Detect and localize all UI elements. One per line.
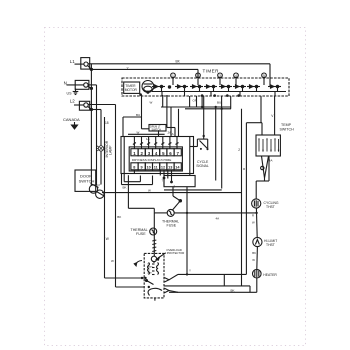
display pins row 1 [131, 149, 181, 156]
timer cam contact 7 [247, 85, 260, 92]
svg-text:W: W [150, 101, 153, 105]
svg-text:R: R [243, 167, 246, 171]
display outer box [121, 137, 194, 174]
svg-text:L2: L2 [70, 98, 75, 103]
svg-text:5: 5 [263, 74, 265, 78]
svg-text:6: 6 [169, 151, 172, 156]
motor junction dots [141, 277, 150, 288]
wire L2 lead [74, 104, 84, 106]
svg-text:1: 1 [172, 74, 174, 78]
motor bottom stub [154, 298, 156, 301]
wire right drop to bend [246, 96, 262, 135]
label CYCLE SIGNAL [196, 160, 209, 168]
overload pointer arrow [156, 253, 166, 260]
wire branch vertical [223, 274, 225, 286]
timer terminal 3 [218, 73, 223, 85]
ground strap arrow [134, 261, 142, 266]
display bottom pins [160, 170, 171, 187]
wire timer drop h [167, 95, 175, 137]
timer cam contact 4 [204, 85, 217, 92]
svg-text:3: 3 [219, 74, 221, 78]
svg-text:THERMAL: THERMAL [162, 219, 179, 223]
wire display left to fuse [128, 175, 154, 213]
svg-text:2: 2 [141, 151, 144, 156]
svg-text:US: US [67, 92, 73, 96]
wire op to winding [153, 262, 155, 263]
timer terminal 4 [234, 73, 239, 85]
svg-text:PROTECTOR: PROTECTOR [167, 251, 185, 255]
motor bottom hook [148, 288, 162, 295]
label THERMAL FUSE 1 [162, 219, 179, 227]
svg-text:HEATER: HEATER [263, 273, 277, 277]
wire N lead [67, 84, 84, 86]
wire drop b [196, 96, 198, 107]
label OVERLOAD PROTECTOR [166, 248, 184, 255]
svg-text:Y: Y [189, 269, 191, 273]
svg-text:SWITCH: SWITCH [280, 127, 295, 131]
wire long right vertical [245, 123, 247, 275]
wire timer to temp switch feed V [274, 96, 276, 135]
svg-text:4: 4 [155, 151, 158, 156]
junction dot timer bottom [139, 93, 142, 96]
motor winding right [157, 263, 159, 275]
svg-text:4: 4 [235, 74, 237, 78]
timer cam contact 3 [190, 85, 203, 92]
svg-text:2: 2 [197, 74, 199, 78]
terminal block L1 [81, 58, 90, 70]
junction dot [255, 212, 257, 214]
cycling thermostat [252, 199, 261, 208]
wire drop e [221, 96, 223, 109]
display top pins [134, 137, 177, 149]
svg-text:BU: BU [217, 101, 221, 105]
svg-text:W: W [252, 221, 255, 225]
junction dots timer box bottom [201, 94, 240, 97]
wire thermal fuse 1 left [154, 212, 167, 214]
temp switch box [256, 135, 280, 156]
wire drop c [201, 96, 203, 107]
wire display pin to fuse blade [173, 187, 182, 210]
wire L1 second feed [91, 69, 198, 78]
thermal fuse 1 [167, 209, 174, 216]
wire drop d [203, 96, 205, 139]
wire motor to right vertical [178, 273, 246, 275]
wire chime to right [164, 189, 222, 191]
switch blade N [88, 86, 93, 89]
svg-text:THST: THST [266, 205, 275, 209]
lamp interior [97, 146, 104, 151]
timer terminal 2 [196, 73, 201, 85]
terminal block N [75, 80, 89, 89]
svg-text:8: 8 [133, 166, 135, 170]
svg-text:10: 10 [147, 166, 151, 170]
svg-text:3A: 3A [170, 132, 174, 136]
wire door switch to right [102, 192, 242, 194]
junction dot timer main [168, 85, 171, 88]
temp switch contacts [259, 139, 279, 152]
svg-text:7: 7 [177, 151, 180, 156]
wire display right inner edge [189, 137, 191, 176]
motor right connector 1 [165, 274, 179, 282]
svg-text:4A: 4A [216, 217, 220, 221]
wire L1 lead [75, 63, 85, 65]
heater [252, 269, 261, 278]
timer box [122, 78, 289, 96]
temp switch label [280, 123, 295, 131]
wire mid drop a [215, 107, 217, 181]
wire display feed a [170, 107, 172, 137]
wire temp switch to cycling [256, 156, 269, 199]
svg-text:V: V [271, 114, 274, 118]
wire terminal column vertical [90, 64, 92, 185]
drum light switch box [149, 125, 166, 132]
svg-text:BK: BK [117, 215, 121, 219]
svg-text:BK: BK [252, 251, 256, 255]
svg-text:BK: BK [231, 288, 235, 292]
motor internal ticks [152, 264, 155, 275]
junction dots bus [201, 106, 223, 110]
svg-text:2: 2 [238, 148, 240, 152]
svg-text:THERMAL: THERMAL [131, 228, 148, 232]
label HI-LIMIT THST [264, 239, 277, 247]
timer cam contact 8 [268, 85, 281, 92]
wire fuse junction down [186, 187, 188, 275]
fuse column ticks [152, 240, 156, 252]
svg-text:Y: Y [127, 67, 130, 71]
timer motor symbol [142, 81, 154, 94]
wire N down [89, 85, 97, 185]
junction dot [186, 212, 188, 214]
svg-text:TIMER: TIMER [125, 84, 136, 88]
wire cycling to hi-limit [255, 208, 258, 237]
svg-text:R: R [252, 214, 254, 218]
wire drum switch down [158, 131, 160, 137]
timer cam contact 6 [233, 85, 246, 92]
wire door switch down [105, 117, 145, 278]
motor winding labels [148, 264, 154, 275]
overload protector symbol [151, 256, 156, 261]
motor contact blade [146, 280, 154, 285]
junction dots below display [163, 177, 173, 184]
display pin numbers row 1 [133, 151, 179, 156]
timer cam contact 1 [152, 85, 165, 92]
display bottom loop U2 [122, 174, 153, 185]
timer terminal 1 [171, 73, 176, 85]
timer internal bus line [152, 91, 286, 93]
wire fuse column down [153, 213, 155, 256]
svg-text:1: 1 [133, 151, 136, 156]
svg-text:CANADA: CANADA [63, 117, 80, 122]
display top pin ticks [133, 143, 179, 145]
svg-text:L1: L1 [70, 59, 75, 64]
junction dot [186, 273, 188, 275]
svg-text:DRYNESS DISPLAY/CHIME: DRYNESS DISPLAY/CHIME [132, 158, 171, 162]
cycle signal switch [190, 139, 209, 150]
bus below timer [161, 107, 231, 109]
door switch box [75, 170, 96, 191]
svg-text:W: W [106, 237, 109, 241]
label THERMAL FUSE 2 [131, 228, 148, 236]
svg-text:N: N [64, 80, 67, 85]
thermal fuse 2 [150, 228, 157, 235]
wire lamp switch feed [123, 95, 149, 137]
terminal block L2 [79, 101, 89, 110]
svg-text:LAMP: LAMP [109, 145, 113, 155]
wire lamp down [100, 151, 102, 185]
wire display top link [128, 133, 165, 135]
svg-text:3: 3 [148, 151, 151, 156]
connector bullet [261, 166, 264, 169]
motor box [144, 253, 164, 298]
display pin numbers row 2 [133, 166, 180, 170]
wire mid drop b [221, 109, 223, 189]
wire timer drop g [162, 95, 164, 108]
wire heater down [169, 278, 257, 292]
svg-text:1A: 1A [146, 137, 150, 141]
wire L1 to right bus [88, 64, 270, 87]
svg-text:11: 11 [154, 166, 158, 170]
svg-text:BK: BK [123, 185, 127, 189]
svg-text:18: 18 [105, 121, 109, 125]
switch blade L2 [88, 106, 93, 110]
svg-text:SWITCH: SWITCH [79, 179, 95, 184]
wire thermal fuse 1 right [174, 212, 256, 214]
wire L2 lamp branch [91, 110, 101, 146]
svg-text:LO: LO [148, 270, 151, 272]
svg-text:SWITCH: SWITCH [152, 128, 162, 131]
wire hi-limit to heater [256, 247, 259, 270]
svg-text:5: 5 [162, 151, 165, 156]
ground CANADA [63, 117, 80, 129]
svg-text:BK: BK [176, 59, 181, 63]
motor winding left [148, 263, 150, 275]
svg-text:14: 14 [175, 166, 180, 170]
display bottom loop U1 [124, 137, 140, 182]
svg-text:W: W [111, 259, 114, 263]
svg-text:12: 12 [161, 166, 165, 170]
svg-text:FUSE: FUSE [136, 232, 146, 236]
label INTERIOR LAMP [105, 140, 113, 157]
timer cam contact 5 [219, 85, 232, 92]
timer terminal 5 [262, 73, 267, 85]
svg-text:THST: THST [266, 243, 275, 247]
wire motor mid right [164, 286, 250, 292]
motor right connector 2 [165, 288, 179, 292]
svg-text:FUSE: FUSE [167, 224, 177, 228]
svg-text:13: 13 [168, 166, 172, 170]
svg-text:W: W [148, 189, 151, 193]
svg-text:AUX: AUX [148, 272, 153, 275]
wire drop a [189, 96, 191, 107]
svg-text:GY: GY [97, 183, 101, 187]
wire L2 to inner column [88, 105, 144, 288]
timer bus stubs [162, 92, 275, 97]
svg-text:MOTOR: MOTOR [125, 88, 138, 92]
temp switch output V wires [262, 156, 269, 181]
svg-text:W: W [137, 131, 140, 135]
timer motor box [124, 82, 140, 93]
svg-text:9: 9 [141, 166, 143, 170]
timer cam contact 2 [175, 85, 188, 92]
svg-text:TIMER: TIMER [203, 68, 220, 73]
chime loop box [164, 176, 195, 187]
svg-text:SIGNAL: SIGNAL [196, 164, 209, 168]
wire drop f [230, 96, 232, 109]
svg-text:BU: BU [136, 113, 140, 117]
switch blade L1 [88, 65, 93, 70]
hi-limit thermostat [253, 237, 262, 246]
ground US/JAPAN [67, 89, 79, 96]
display inner box [129, 147, 182, 171]
door switch contacts [89, 184, 104, 199]
label CYCLING THST [264, 201, 279, 209]
svg-text:W: W [252, 258, 255, 262]
display pins row 2 [131, 163, 181, 170]
wire right long drop [241, 109, 243, 286]
wire display feed b [178, 109, 180, 137]
